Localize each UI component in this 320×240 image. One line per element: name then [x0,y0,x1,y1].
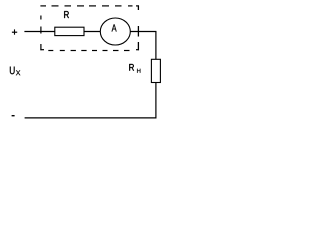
wire: right vertical down to RH [155,31,157,59]
resistor R body [55,27,84,35]
label UX: X subscript [16,70,20,75]
dashed box top edge [40,5,139,7]
dashed box bottom edge corners [40,49,139,51]
wire: RH down to bottom corner [155,83,157,119]
wire: resistor R to ammeter [84,31,101,33]
dashed box right edge [137,5,139,50]
label RH: H subscript [137,69,140,73]
ammeter A circle [100,18,130,45]
plus terminal [12,29,17,34]
dashed box left edge [40,16,42,51]
label UX: U [10,67,15,75]
dashed box bottom edge [48,50,129,52]
label R [64,11,69,18]
minus terminal [12,115,15,117]
ammeter label A [112,24,117,31]
wire: plus terminal to resistor R [24,31,55,33]
wire: ammeter to right corner [130,31,156,33]
wire: bottom return [25,117,157,119]
resistor RH body [151,59,160,82]
label RH: R [129,64,134,71]
